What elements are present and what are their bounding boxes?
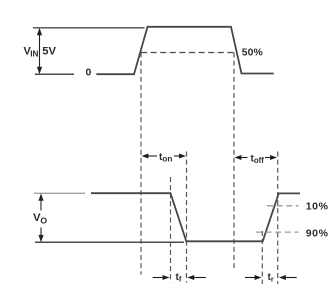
wire dashed vertical D6 output rise start (261, 231, 263, 284)
svg-text:0: 0 (86, 68, 92, 79)
node 10% dashed level line gray (267, 205, 298, 207)
wire VIN 0 baseline left segment (35, 73, 74, 75)
node 50% dashed level line (141, 52, 235, 54)
wire dashed vertical D2 output fall end (186, 152, 188, 283)
wire VO output pulse trace (91, 193, 300, 241)
svg-text:90%: 90% (306, 227, 329, 239)
ton measurement arrows (142, 154, 187, 159)
wire dashed vertical D5 output fall start (170, 177, 172, 283)
node VIN 5V reference line (33, 27, 145, 29)
VIN amplitude double arrow (37, 28, 42, 74)
wire dashed vertical D3 input falling 50% (233, 53, 235, 271)
tr measurement arrows (245, 275, 297, 280)
wire dashed vertical D1 input rising 50% (140, 53, 142, 275)
svg-text:tf: tf (176, 272, 182, 284)
VO amplitude double arrow (38, 193, 43, 242)
wire dashed vertical D4 output rise end (277, 152, 279, 285)
tf measurement arrows (153, 275, 206, 280)
wire VO low reference line (35, 241, 184, 243)
wire VIN input pulse trace (96, 27, 273, 74)
svg-text:50%: 50% (242, 47, 263, 58)
svg-text:10%: 10% (306, 201, 329, 213)
svg-text:tr: tr (268, 272, 274, 284)
node VO high reference line gray (34, 192, 85, 194)
toff measurement arrows (235, 155, 278, 160)
node 90% dashed level line gray (256, 231, 298, 233)
